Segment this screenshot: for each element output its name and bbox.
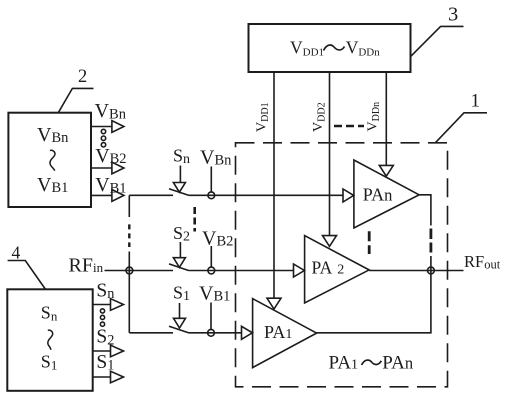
ellipsis dashes between PA2 and PAn	[368, 231, 371, 254]
node RF output junction	[428, 267, 435, 274]
svg-text:VB1: VB1	[37, 174, 68, 196]
node RFin junction	[126, 267, 133, 274]
callout leader 4	[8, 261, 46, 290]
arrowhead box2 VB1 output	[112, 190, 124, 202]
switch Sn arrowhead	[173, 183, 185, 193]
wire VBn vertical to node	[210, 167, 212, 193]
op-amp PAn triangle	[354, 160, 419, 228]
svg-text:VDDn: VDDn	[346, 37, 381, 58]
arrow into PA2 top (VDD2)	[323, 236, 337, 247]
wire box2 VB2 output	[91, 167, 112, 169]
switch S1 blade	[169, 326, 189, 333]
node VBn junction on Sn row	[208, 192, 215, 199]
callout leader 1	[435, 113, 487, 143]
svg-text:PAn: PAn	[382, 353, 413, 374]
svg-text:PA2: PA2	[312, 257, 345, 277]
wire Sn row right segment to PAn input	[189, 194, 344, 196]
wire box2 VBn output	[91, 126, 112, 128]
label S1 inside box 4	[41, 352, 58, 373]
wire box4 S2 output	[93, 350, 111, 352]
box 4 output Sn: label	[96, 280, 114, 302]
switch Sn control line	[179, 166, 181, 183]
wire Sn row left segment	[129, 194, 173, 196]
svg-text:VDDn: VDDn	[366, 102, 383, 132]
vertical squiggle in box 2	[50, 150, 55, 170]
node VB1 junction on S1 row	[208, 329, 215, 336]
label PAn	[363, 184, 393, 204]
label Sn inside box 4	[41, 302, 58, 323]
label PA1	[264, 322, 292, 342]
switch S2 control line	[179, 242, 181, 258]
svg-text:VDD2: VDD2	[311, 102, 328, 132]
arrowhead box4 Sn output	[111, 299, 124, 311]
wire RFout horizontal	[431, 270, 464, 272]
label VBn above node	[200, 147, 232, 169]
switch S2: control label	[173, 223, 190, 245]
svg-text:PAn: PAn	[363, 184, 393, 204]
arrow into PA2 input	[294, 264, 305, 277]
box 2 output VB1: label	[95, 174, 126, 196]
label VDD2 rotated	[311, 102, 328, 132]
box U4 switch-control block Sn~S1	[7, 289, 92, 391]
ellipsis circles between VBn and VB2 outputs	[101, 129, 105, 147]
svg-text:VBn: VBn	[95, 100, 127, 122]
arrowhead box2 VBn output	[112, 121, 124, 133]
digit 4	[12, 243, 21, 263]
wire PA2 output to node	[369, 270, 431, 272]
label RFin	[69, 255, 104, 277]
switch S1 arrowhead	[174, 318, 186, 328]
svg-text:RFin: RFin	[69, 255, 104, 277]
arrowhead box4 S1 output	[111, 371, 124, 383]
callout leader 3	[411, 26, 464, 56]
svg-text:S1: S1	[173, 282, 190, 304]
wire VB2 vertical to node	[210, 246, 212, 267]
wire VDD1 vertical	[273, 73, 275, 299]
arrow into PA1 top (VDD1)	[267, 298, 281, 309]
label RFout	[464, 252, 501, 272]
vertical squiggle in box 4	[48, 330, 53, 350]
label VB1 above node	[199, 283, 230, 305]
box 2 output VB2: label	[95, 145, 126, 167]
wire PA1 output up-leg to node	[317, 271, 431, 333]
switch S1 control line	[179, 303, 181, 318]
svg-text:S2: S2	[173, 223, 190, 245]
svg-text:VBn: VBn	[37, 124, 69, 146]
switch S2 arrowhead	[173, 258, 185, 268]
node VB2 junction on S2 row	[208, 267, 215, 274]
wire box2 VB1 output	[91, 194, 112, 196]
box 2 output VBn: label, wire, arrow	[95, 100, 127, 122]
label VB1 inside box 2	[37, 174, 68, 196]
svg-text:Sn: Sn	[173, 146, 190, 168]
svg-text:VB1: VB1	[95, 174, 126, 196]
left bus dashed continuation	[128, 224, 130, 247]
wire VB1 vertical to node	[210, 303, 212, 330]
switch Sn: control label	[173, 146, 190, 168]
arrow into PAn top (VDDn)	[379, 165, 393, 176]
ellipsis dashes between VDD2 and VDDn	[334, 125, 364, 127]
digit 2	[78, 67, 87, 87]
svg-text:VDD1: VDD1	[255, 102, 272, 132]
wire S1 row left segment	[129, 332, 173, 334]
wire PAn output to down-leg	[419, 195, 431, 226]
box U3 supply block VDD1~VDDn	[249, 24, 411, 72]
digit 1	[471, 90, 481, 111]
tilde in box 3	[324, 45, 345, 51]
callout leader 2	[58, 88, 94, 113]
box 4 output S2: label	[96, 327, 114, 349]
svg-text:VDD1: VDD1	[290, 37, 324, 58]
svg-text:VB2: VB2	[202, 227, 233, 249]
wire box4 S1 output	[93, 376, 111, 378]
svg-text:VBn: VBn	[200, 147, 232, 169]
wire VDD2 vertical	[329, 73, 331, 236]
arrowhead box2 VB2 output	[112, 162, 124, 174]
digit 3	[448, 4, 458, 26]
svg-text:VB1: VB1	[199, 283, 230, 305]
svg-text:4: 4	[12, 243, 21, 263]
arrow into PA1 input	[242, 326, 253, 339]
svg-text:RFout: RFout	[464, 252, 501, 272]
label VDD1 rotated	[255, 102, 272, 132]
wire left bus vertical upper (to Sn row)	[128, 195, 130, 217]
svg-text:3: 3	[448, 4, 458, 26]
op-amp PA1 triangle	[253, 299, 317, 368]
switch Sn blade	[169, 189, 189, 196]
wire VDDn vertical	[385, 73, 387, 166]
wire S2 row right segment to PA2 input	[189, 270, 294, 272]
wire left bus vertical lower (to S1 row)	[128, 252, 130, 333]
label VBn inside box 2	[37, 124, 69, 146]
label PA1~PAn inside dashed box	[329, 353, 414, 374]
box 4 output S1: label	[96, 352, 114, 374]
svg-text:S1: S1	[41, 352, 58, 373]
svg-text:2: 2	[78, 67, 87, 87]
label PA2	[312, 257, 345, 277]
box U2 bias block VBn~VB1	[8, 113, 91, 207]
svg-text:VB2: VB2	[95, 145, 126, 167]
svg-text:PA1: PA1	[329, 353, 359, 374]
svg-text:S1: S1	[96, 352, 114, 374]
label VB2 above node	[202, 227, 233, 249]
wire RFin horizontal	[105, 270, 174, 272]
wire box4 Sn output	[93, 304, 111, 306]
svg-text:PA1: PA1	[264, 322, 292, 342]
tilde in PA1~PAn label	[362, 360, 382, 365]
ellipsis dashes between Sn and S2 rows	[193, 207, 196, 232]
svg-text:1: 1	[471, 90, 481, 111]
label VDDn rotated	[366, 102, 383, 132]
switch S1: control label	[173, 282, 190, 304]
arrowhead box4 S2 output	[111, 345, 124, 357]
ellipsis circles between Sn and S2 outputs	[100, 309, 104, 327]
wire PAn leg lower segment to output node	[430, 256, 432, 271]
arrow into PAn input	[343, 189, 354, 202]
wire S1 row right segment to PA1 input	[189, 332, 242, 334]
label VDD1~VDDn inside box 3	[290, 37, 380, 58]
switch S2 blade	[169, 264, 189, 271]
svg-text:Sn: Sn	[41, 302, 58, 323]
dashed box U1 PA module	[236, 143, 448, 387]
ellipsis dashes on PAn output leg	[429, 229, 432, 253]
op-amp PA2 triangle	[305, 236, 370, 303]
